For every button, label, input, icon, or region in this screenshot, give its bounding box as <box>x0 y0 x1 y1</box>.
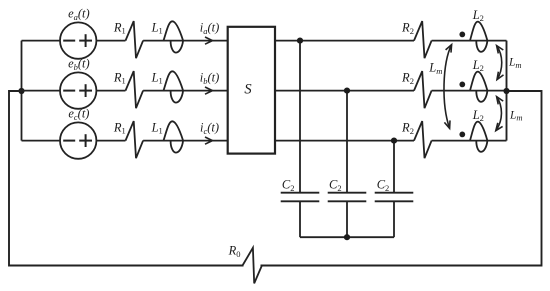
svg-text:ea(t): ea(t) <box>68 6 90 21</box>
svg-text:ec(t): ec(t) <box>68 106 89 121</box>
svg-text:ia(t): ia(t) <box>200 21 220 36</box>
svg-text:ib(t): ib(t) <box>200 71 220 86</box>
svg-text:ic(t): ic(t) <box>200 121 219 136</box>
svg-text:S: S <box>244 82 252 98</box>
svg-text:eb(t): eb(t) <box>68 56 90 71</box>
